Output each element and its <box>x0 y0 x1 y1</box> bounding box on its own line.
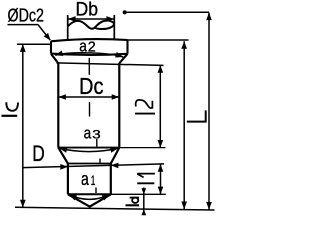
svg-text:a: a <box>81 168 89 189</box>
svg-text:a: a <box>79 37 87 56</box>
svg-text:2: 2 <box>88 40 96 56</box>
svg-text:3: 3 <box>92 127 101 141</box>
svg-text:1: 1 <box>91 173 96 189</box>
svg-text:a: a <box>84 124 92 142</box>
svg-text:D: D <box>32 141 45 166</box>
svg-text:Db: Db <box>76 0 99 21</box>
svg-text:Dc: Dc <box>79 73 104 99</box>
svg-text:ØDc2: ØDc2 <box>8 5 44 25</box>
